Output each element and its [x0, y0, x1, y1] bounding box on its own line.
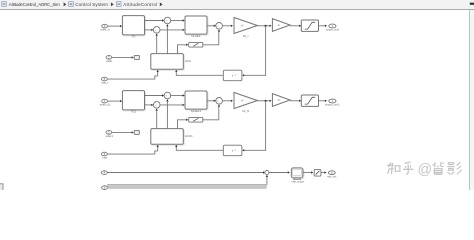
inport row3 lower (cut at bottom edge)	[102, 186, 108, 190]
wire band -> sum4 bottom	[266, 176, 268, 185]
inport euler1 (input 2b) -> terminator	[106, 131, 112, 135]
svg-text:-K-: -K-	[277, 99, 281, 102]
watermark zhihu logo text (drawn strokes)	[387, 162, 413, 174]
sum junction sum1a (v1 - z1... upper)	[164, 17, 171, 24]
wire DL2 -> ESO2 u input (bottom right port)	[176, 146, 223, 151]
svg-text:-K-: -K-	[277, 24, 281, 27]
svg-text:NLSEF: NLSEF	[191, 34, 200, 38]
svg-text:TD: TD	[132, 35, 136, 39]
inport euler_d (input 1a)	[102, 24, 108, 28]
svg-text:b0_f: b0_f	[243, 34, 249, 38]
svg-text:-K-: -K-	[241, 25, 245, 28]
gain G1a 1/b0 (large triangle)	[234, 18, 257, 34]
unit delay block DL1 1/z (mirrored)	[223, 70, 242, 81]
wire inport->TD1	[108, 25, 121, 27]
svg-text:-: -	[167, 96, 168, 99]
wire saturation -> outport	[319, 100, 326, 102]
wire inport->TD2	[108, 100, 121, 102]
wire saturation -> outport	[319, 25, 326, 27]
svg-text:euler_d1: euler_d1	[100, 103, 111, 107]
wire u delayed: junction down -> unit delay DL2 (flipped)	[243, 101, 265, 151]
sum junction sum1c (u0 - z3/b0)	[216, 23, 223, 30]
right scrollbar strip	[469, 10, 474, 190]
subsystem TD2 (tracking differentiator)	[123, 92, 145, 111]
wire gain -> junction -> gain G2b	[257, 100, 270, 102]
subsystem ESO2 (extended state observer)	[152, 130, 185, 146]
svg-text:rate_scope: rate_scope	[292, 181, 305, 184]
svg-text:-: -	[156, 31, 157, 34]
svg-text:2: 2	[108, 56, 110, 60]
breadcrumb icon 2	[69, 2, 74, 7]
toolbar right control	[470, 3, 474, 5]
breadcrumb separator	[111, 2, 114, 6]
wire TD2 v2 -> sum2b	[145, 104, 152, 106]
svg-text:1: 1	[332, 24, 334, 28]
sum junction sum4 (small)	[265, 170, 269, 174]
terminator block T2	[134, 130, 139, 134]
wire u delayed: junction down -> unit delay DL1 (flipped)	[243, 26, 265, 76]
svg-text:ESO: ESO	[185, 59, 192, 63]
unit delay block DL2 1/z (mirrored)	[223, 145, 242, 156]
wire z3 feedback: ESO1 z3 -> rate-limit block	[178, 45, 187, 54]
svg-text:-: -	[219, 102, 220, 105]
wire z3 feedback: ESO2 z3 -> rate-limit block	[178, 120, 187, 129]
sum junction sum1b (lower)	[153, 27, 160, 34]
wire NLSEF1 -> sum1c	[207, 25, 214, 27]
breadcrumb toolbar	[0, 0, 474, 10]
terminator block T1	[134, 55, 139, 59]
breadcrumb icon 1	[2, 2, 7, 7]
sum junction sum2b (lower)	[153, 102, 160, 109]
wire ESO1 z1 -> sum1b bottom	[156, 34, 158, 53]
wire sum1c -> gain 1/b0	[222, 25, 231, 27]
wire TD2 v1 -> sum2a	[145, 95, 163, 97]
outport rate_out	[328, 171, 335, 175]
svg-text:1: 1	[332, 99, 334, 103]
svg-text:3: 3	[104, 77, 106, 81]
svg-text:-: -	[167, 21, 168, 24]
saturation block SAT1	[301, 20, 318, 31]
saturation block SAT2	[301, 95, 318, 106]
breadcrumb separator	[64, 2, 67, 6]
svg-text:1: 1	[104, 99, 106, 103]
thick bus band (lower signal)	[108, 184, 267, 188]
wire sum1b -> NLSEF1 in2	[160, 29, 183, 31]
svg-text:3: 3	[104, 152, 106, 156]
gain G1b (small triangle)	[272, 19, 290, 32]
svg-text:2: 2	[108, 131, 110, 135]
rate limiter block RL1 (slash icon)	[189, 42, 203, 47]
svg-text:b0_f1: b0_f1	[242, 109, 249, 113]
outport torque_cmd1	[329, 99, 336, 103]
breadcrumb separator	[160, 2, 163, 6]
conversion block CV1 (slash square)	[314, 169, 321, 176]
wire TD1 v2 -> sum1b	[145, 29, 152, 31]
wire ESO2 z2 -> sum2a bottom	[166, 100, 168, 129]
svg-text:TD1: TD1	[131, 110, 137, 114]
scope block SC1	[292, 169, 304, 179]
wire NLSEF2 -> sum2c	[207, 100, 214, 102]
svg-text:ESO1: ESO1	[185, 134, 193, 138]
wire rate-limit -> sum2c bottom	[203, 106, 219, 120]
inport rate_m (row3)	[102, 171, 108, 175]
svg-text:AttitudeControl_ADRC_Sim: AttitudeControl_ADRC_Sim	[9, 2, 60, 7]
svg-text:rate_f: rate_f	[101, 81, 108, 85]
svg-text:torque_cmd1: torque_cmd1	[325, 104, 340, 107]
wire sum2b -> NLSEF2 in2	[160, 104, 183, 106]
wire ESO2 z1 -> sum2b bottom	[156, 109, 158, 128]
wire ESO1 z2 -> sum1a bottom	[166, 25, 168, 54]
wire TD1 v1 -> sum1a	[145, 20, 163, 22]
sum junction sum2a (v1 - z1... upper)	[164, 92, 171, 99]
outport torque_cmd	[329, 24, 336, 28]
subsystem NLSEF1	[186, 17, 208, 35]
svg-text:Control System: Control System	[75, 2, 108, 7]
gain G2b (small triangle)	[272, 94, 290, 107]
wire gain G1b -> saturation	[290, 25, 300, 27]
subsystem NLSEF2	[186, 92, 208, 110]
svg-text:3: 3	[331, 171, 333, 175]
inport euler_d1 (input 2a)	[102, 99, 108, 103]
svg-text:torque_cmd: torque_cmd	[326, 29, 340, 32]
svg-text:rate_out: rate_out	[327, 176, 336, 179]
subsystem TD1 (tracking differentiator)	[123, 17, 145, 36]
wire rate-limit -> sum1c bottom	[203, 31, 219, 45]
svg-text:rate: rate	[102, 156, 107, 160]
svg-text:NLSEF1: NLSEF1	[191, 109, 202, 113]
svg-text:euler1: euler1	[106, 134, 114, 138]
svg-text:-K-: -K-	[241, 100, 245, 103]
wire scope -> conversion block	[303, 172, 312, 174]
svg-text:5: 5	[104, 186, 106, 190]
gain G2a 1/b0 (large triangle)	[234, 93, 257, 109]
inport euler (input 1b) -> terminator	[106, 56, 112, 60]
svg-text:-: -	[156, 106, 157, 109]
svg-text:@: @	[418, 162, 433, 178]
svg-text:4: 4	[104, 171, 106, 175]
wire gain -> junction -> gain G1b	[257, 25, 270, 27]
inport rate_f (measured) -> ESO1 y input	[102, 77, 108, 81]
subsystem ESO1 (extended state observer)	[152, 55, 185, 71]
wire gain G2b -> saturation	[290, 100, 300, 102]
wire sum4 -> scope-like block	[269, 172, 288, 174]
inport rate (measured) -> ESO2 y input	[102, 152, 108, 156]
svg-text:-: -	[219, 27, 220, 30]
wire DL1 -> ESO1 u input (bottom right port)	[176, 71, 223, 76]
wire rate_m -> sum4 (long)	[108, 172, 264, 174]
wire sum1a -> NLSEF1 in1	[171, 20, 184, 22]
wire conversion -> outport	[321, 172, 325, 174]
svg-text:AttitudeControl: AttitudeControl	[123, 2, 157, 7]
svg-text:euler_d: euler_d	[101, 28, 110, 32]
sum junction sum2c (u0 - z3/b0)	[216, 98, 223, 105]
svg-text:1: 1	[104, 24, 106, 28]
breadcrumb icon 3	[116, 2, 121, 7]
node junction u1	[265, 25, 267, 27]
partial block at canvas left edge	[0, 184, 3, 192]
svg-text:euler: euler	[106, 59, 112, 63]
rate limiter block RL2 (slash icon)	[189, 117, 203, 122]
wire sum2a -> NLSEF2 in1	[171, 95, 184, 97]
node junction u2	[265, 100, 267, 102]
wire sum2c -> gain 1/b0	[222, 100, 231, 102]
